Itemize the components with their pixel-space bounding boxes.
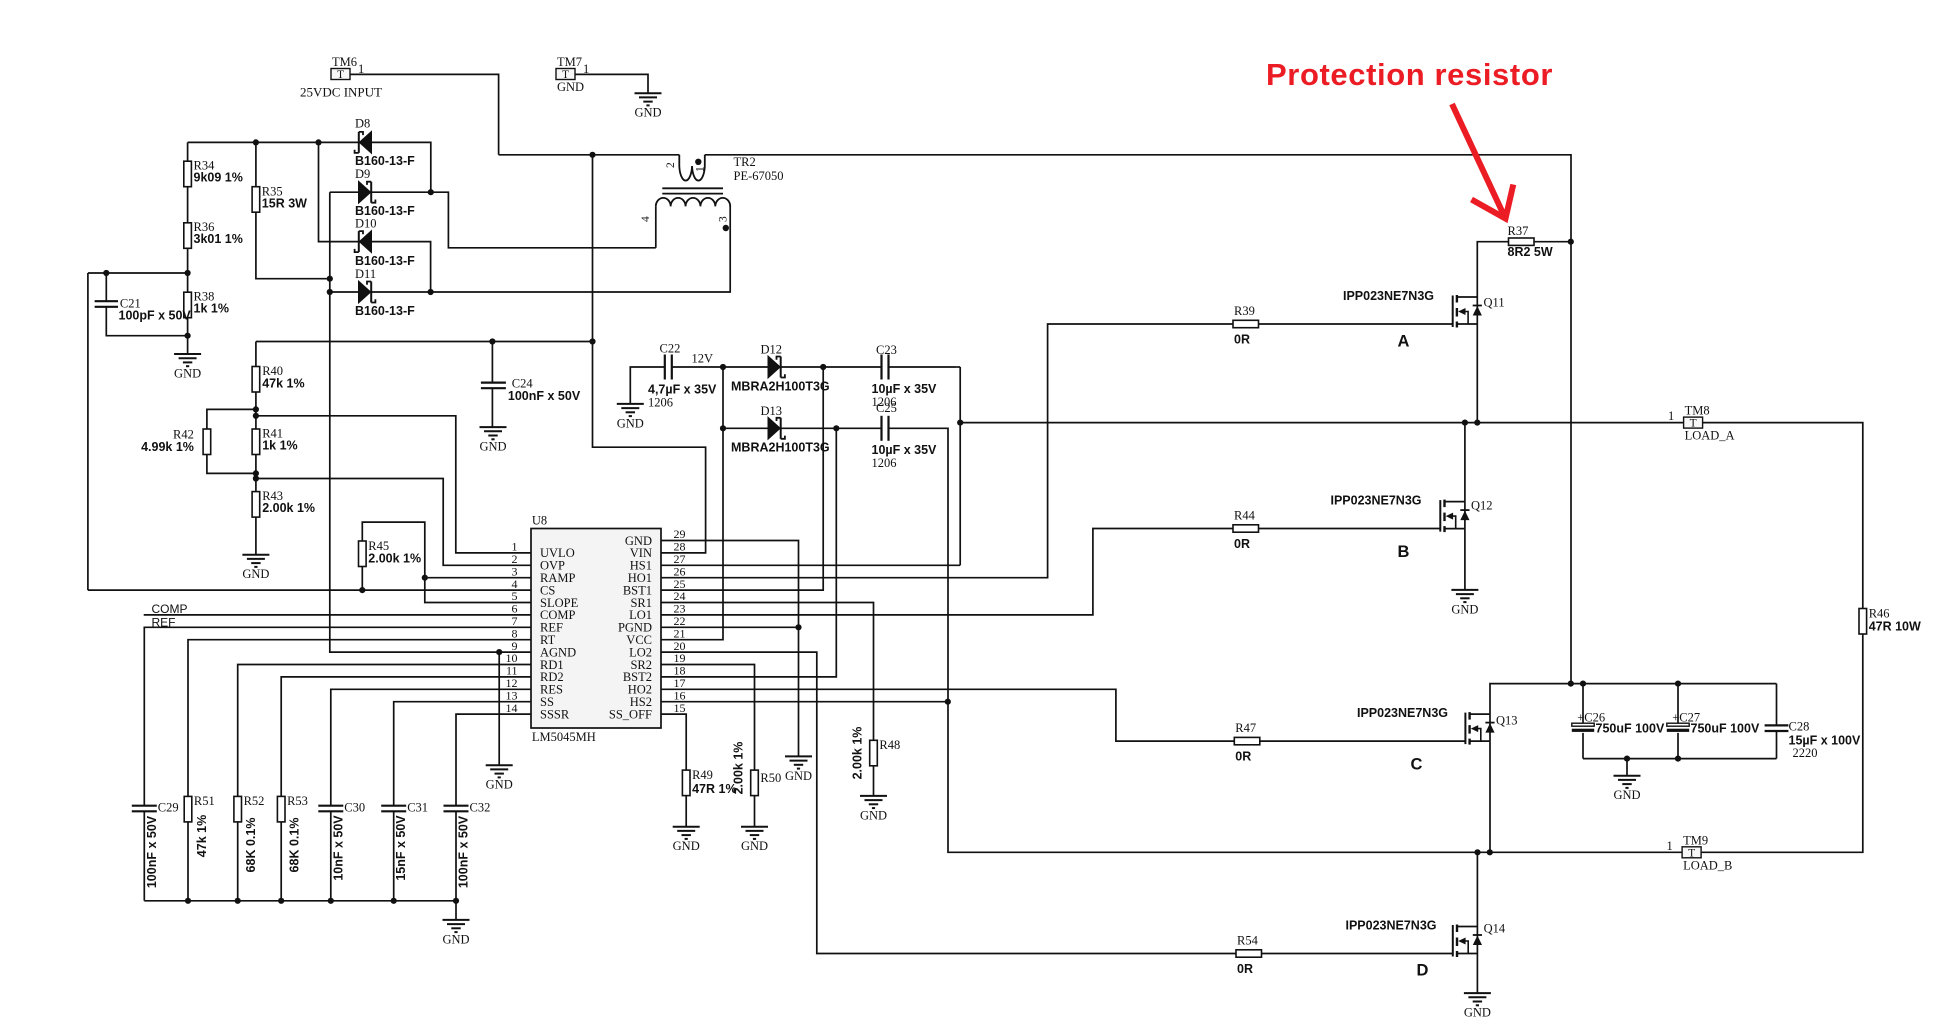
wire	[456, 714, 531, 805]
wire	[1677, 684, 1679, 724]
diode D10	[355, 231, 372, 253]
transistor Q13	[1357, 706, 1518, 745]
wire	[781, 366, 882, 368]
svg-text:TM7: TM7	[557, 55, 582, 69]
ground	[442, 920, 469, 947]
resistor R47	[1234, 737, 1260, 744]
svg-text:C: C	[1411, 756, 1423, 774]
wire	[238, 665, 531, 797]
svg-text:C29: C29	[158, 801, 179, 815]
svg-text:Protection resistor: Protection resistor	[1266, 57, 1553, 92]
wire	[361, 567, 363, 591]
wire	[372, 142, 431, 192]
ground	[174, 354, 201, 381]
svg-text:15R 3W: 15R 3W	[262, 196, 307, 210]
svg-text:GND: GND	[785, 769, 812, 783]
wire	[630, 367, 665, 404]
svg-text:Q12: Q12	[1471, 499, 1493, 513]
wire	[394, 702, 531, 806]
junction	[1462, 420, 1468, 426]
resistor R43	[252, 492, 260, 517]
capacitor C25	[882, 416, 889, 441]
svg-text:R53: R53	[287, 794, 308, 808]
wire	[1259, 323, 1453, 325]
wire	[331, 689, 531, 805]
test point TM7	[556, 55, 582, 81]
junction	[1580, 681, 1586, 687]
diode D8	[355, 131, 372, 153]
junction	[315, 139, 321, 145]
capacitor C24	[481, 383, 506, 389]
op-amp U8 LM5045MH controller	[506, 514, 686, 745]
diode D12	[768, 356, 785, 378]
svg-text:4.99k 1%: 4.99k 1%	[141, 440, 194, 454]
junction	[422, 575, 428, 581]
junction	[328, 898, 334, 904]
wire	[237, 822, 239, 901]
svg-text:3k01 1%: 3k01 1%	[194, 232, 243, 246]
svg-text:R47: R47	[1235, 721, 1256, 735]
wire	[661, 652, 1236, 953]
wire	[1476, 852, 1478, 926]
capacitor C32	[444, 806, 469, 812]
svg-text:B160-13-F: B160-13-F	[355, 154, 415, 168]
resistor R50	[751, 770, 759, 796]
svg-text:A: A	[1398, 333, 1410, 351]
wire	[1464, 529, 1466, 590]
test point TM8	[1684, 404, 1735, 443]
wire	[661, 367, 823, 590]
transistor Q14	[1345, 919, 1505, 958]
wire	[661, 324, 1233, 578]
svg-text:C23: C23	[876, 343, 897, 357]
wire	[1582, 733, 1584, 759]
svg-text:GND: GND	[1613, 788, 1640, 802]
wire	[88, 589, 531, 591]
svg-text:R37: R37	[1508, 224, 1529, 238]
svg-text:1k 1%: 1k 1%	[194, 301, 229, 315]
svg-text:T: T	[337, 69, 344, 81]
wire	[781, 427, 882, 429]
junction	[1487, 849, 1493, 855]
capacitor C23	[882, 355, 889, 380]
wire	[1776, 731, 1778, 759]
svg-text:2: 2	[665, 162, 677, 168]
wire	[1476, 954, 1478, 994]
junction	[1474, 420, 1480, 426]
svg-text:PE-67050: PE-67050	[734, 169, 784, 183]
wire	[1259, 528, 1441, 530]
resistor R53	[277, 796, 285, 822]
svg-text:2.00k 1%: 2.00k 1%	[262, 501, 315, 515]
capacitor C30	[318, 806, 343, 812]
svg-text:Q14: Q14	[1484, 922, 1506, 936]
wire	[661, 714, 686, 770]
wire	[1776, 684, 1778, 726]
wire	[425, 577, 531, 579]
svg-text:9k09 1%: 9k09 1%	[194, 170, 243, 184]
wire	[281, 677, 531, 797]
ground	[1451, 590, 1478, 617]
svg-text:GND: GND	[486, 778, 513, 792]
diode D13	[768, 417, 785, 439]
wire	[1476, 324, 1478, 423]
resistor R35	[252, 187, 260, 213]
svg-text:GND: GND	[673, 839, 700, 853]
ground	[1613, 776, 1640, 803]
wire	[187, 248, 189, 292]
wire	[1464, 423, 1466, 502]
wire	[330, 291, 359, 293]
junction	[253, 413, 259, 419]
wire	[957, 366, 961, 368]
ground	[617, 404, 644, 431]
junction	[235, 898, 241, 904]
wire	[187, 318, 189, 354]
junction	[253, 406, 259, 412]
wire	[1477, 242, 1508, 297]
svg-text:D9: D9	[355, 167, 370, 181]
wire	[330, 191, 359, 193]
resistor R41	[252, 429, 260, 455]
wire	[661, 665, 755, 771]
svg-text:47R 10W: 47R 10W	[1869, 619, 1921, 633]
svg-text:D12: D12	[761, 343, 783, 357]
wire	[1490, 684, 1777, 715]
svg-text:IPP023NE7N3G: IPP023NE7N3G	[1330, 494, 1421, 508]
svg-text:D: D	[1417, 962, 1429, 980]
junction	[428, 289, 434, 295]
wire	[661, 603, 874, 741]
ground	[860, 796, 887, 823]
svg-text:TM8: TM8	[1685, 404, 1710, 418]
svg-text:C28: C28	[1789, 720, 1810, 734]
wire	[255, 455, 257, 492]
wire	[144, 901, 456, 920]
wire	[1260, 740, 1466, 742]
svg-text:TR2: TR2	[734, 155, 756, 169]
junction	[428, 189, 434, 195]
wire	[1262, 953, 1453, 955]
svg-text:GND: GND	[1464, 1006, 1491, 1020]
svg-text:25VDC INPUT: 25VDC INPUT	[300, 85, 382, 100]
wire	[256, 212, 330, 279]
svg-text:R48: R48	[879, 738, 900, 752]
svg-text:U8: U8	[532, 514, 547, 528]
svg-text:47k 1%: 47k 1%	[262, 377, 304, 391]
svg-text:2.00k 1%: 2.00k 1%	[368, 551, 421, 565]
junction	[1675, 681, 1681, 687]
wire	[187, 142, 189, 161]
resistor R40	[252, 367, 260, 393]
junction	[833, 425, 839, 431]
svg-text:0R: 0R	[1237, 962, 1253, 976]
svg-text:GND: GND	[634, 106, 661, 120]
junction	[589, 152, 595, 158]
svg-text:100nF x 50V: 100nF x 50V	[457, 815, 471, 888]
svg-text:15nF x 50V: 15nF x 50V	[394, 815, 408, 881]
junction	[359, 587, 365, 593]
svg-text:R52: R52	[244, 794, 265, 808]
wire	[661, 701, 948, 703]
svg-text:R46: R46	[1869, 606, 1890, 620]
wire	[661, 626, 799, 628]
wire	[255, 142, 257, 186]
capacitor C29	[132, 806, 157, 812]
wire	[1583, 758, 1777, 760]
svg-text:TM9: TM9	[1683, 833, 1708, 847]
svg-text:LM5045MH: LM5045MH	[532, 730, 596, 744]
capacitor C31	[381, 806, 406, 812]
wire	[1582, 684, 1584, 724]
wire	[499, 154, 680, 156]
wire	[889, 428, 1683, 852]
test point TM9	[1682, 833, 1732, 872]
junction	[1568, 681, 1574, 687]
wire	[491, 342, 493, 383]
svg-text:10nF x 50V: 10nF x 50V	[331, 815, 345, 881]
svg-text:750uF 100V: 750uF 100V	[1691, 721, 1760, 735]
junction	[253, 475, 259, 481]
wire	[350, 74, 499, 154]
ground	[479, 427, 506, 454]
resistor R49	[682, 770, 690, 796]
wire	[661, 529, 1233, 615]
capacitor C22	[665, 355, 672, 380]
resistor R37	[1509, 238, 1535, 245]
wire	[256, 479, 531, 566]
transistor Q11	[1343, 289, 1505, 328]
wire	[143, 811, 145, 901]
wire	[106, 307, 187, 336]
transistor Q12	[1330, 494, 1492, 532]
junction	[589, 338, 595, 344]
wire	[330, 192, 531, 652]
wire	[256, 341, 593, 343]
svg-text:R49: R49	[692, 768, 713, 782]
resistor R42	[203, 429, 211, 455]
junction	[1675, 756, 1681, 762]
svg-text:COMP: COMP	[152, 602, 188, 616]
svg-text:3: 3	[718, 216, 730, 222]
wire	[255, 517, 257, 555]
wire	[280, 822, 282, 901]
svg-text:IPP023NE7N3G: IPP023NE7N3G	[1345, 919, 1436, 933]
wire	[705, 155, 1571, 684]
wire	[362, 522, 531, 602]
svg-text:TM6: TM6	[332, 55, 357, 69]
wire	[188, 640, 531, 797]
svg-text:D10: D10	[355, 217, 377, 231]
junction	[327, 276, 333, 282]
svg-text:1: 1	[695, 166, 707, 172]
wire	[371, 206, 730, 292]
wire	[371, 192, 656, 248]
junction	[820, 364, 826, 370]
wire	[188, 141, 360, 143]
wire	[1534, 241, 1571, 243]
junction	[1568, 239, 1574, 245]
ground	[242, 555, 269, 582]
svg-text:LOAD_B: LOAD_B	[1683, 858, 1732, 872]
svg-text:R44: R44	[1234, 509, 1256, 523]
svg-text:2220: 2220	[1793, 746, 1818, 760]
wire	[575, 74, 648, 93]
svg-text:10µF x 35V: 10µF x 35V	[872, 443, 938, 457]
svg-text:GND: GND	[617, 416, 644, 430]
wire	[372, 242, 431, 292]
diode D11	[359, 281, 376, 303]
svg-text:0R: 0R	[1234, 537, 1250, 551]
transformer TR2	[640, 155, 784, 248]
resistor R54	[1236, 950, 1262, 957]
resistor R38	[184, 292, 192, 318]
ground	[785, 756, 812, 783]
wire	[959, 367, 961, 565]
capacitor C28	[1765, 725, 1789, 731]
svg-text:Q11: Q11	[1484, 296, 1505, 310]
svg-text:R50: R50	[760, 771, 781, 785]
svg-text:B: B	[1398, 543, 1410, 561]
wire	[105, 273, 107, 301]
ground	[741, 827, 768, 854]
wire	[1626, 759, 1628, 776]
wire	[1702, 634, 1863, 852]
svg-text:47R 1%: 47R 1%	[692, 782, 736, 796]
wire	[256, 416, 531, 553]
capacitor C26	[1572, 723, 1594, 732]
junction	[185, 333, 191, 339]
svg-text:D8: D8	[355, 116, 370, 130]
svg-text:15: 15	[674, 701, 686, 715]
svg-text:MBRA2H100T3G: MBRA2H100T3G	[731, 379, 830, 393]
wire	[87, 273, 89, 590]
capacitor C27	[1667, 723, 1689, 732]
junction	[795, 624, 801, 630]
junction	[185, 898, 191, 904]
wire	[661, 367, 723, 640]
wire	[491, 388, 493, 427]
svg-text:IPP023NE7N3G: IPP023NE7N3G	[1343, 289, 1434, 303]
svg-text:GND: GND	[557, 80, 584, 94]
wire	[319, 142, 360, 241]
svg-text:8R2 5W: 8R2 5W	[1508, 245, 1553, 259]
svg-text:SS_OFF: SS_OFF	[609, 707, 652, 721]
svg-text:C25: C25	[876, 401, 897, 415]
svg-text:47k 1%: 47k 1%	[195, 815, 209, 857]
wire	[144, 614, 531, 616]
svg-text:Q13: Q13	[1496, 714, 1518, 728]
wire	[498, 652, 500, 765]
test point TM6	[331, 55, 357, 81]
svg-text:14: 14	[506, 701, 518, 715]
svg-text:0R: 0R	[1234, 333, 1250, 347]
resistor R34	[184, 161, 192, 187]
wire	[723, 427, 768, 429]
svg-text:C31: C31	[407, 801, 428, 815]
wire	[661, 428, 836, 677]
svg-text:100nF x 50V: 100nF x 50V	[145, 815, 159, 888]
junction	[720, 425, 726, 431]
wire	[1703, 423, 1863, 609]
svg-text:GND: GND	[741, 839, 768, 853]
junction	[103, 270, 109, 276]
wire	[207, 455, 256, 474]
svg-text:MBRA2H100T3G: MBRA2H100T3G	[731, 441, 830, 455]
svg-text:R54: R54	[1237, 934, 1259, 948]
junction	[453, 898, 459, 904]
wire	[873, 766, 875, 796]
junction	[253, 470, 259, 476]
resistor R44	[1233, 525, 1259, 532]
svg-text:C32: C32	[470, 801, 491, 815]
wire	[88, 272, 188, 274]
wire	[672, 366, 768, 368]
junction	[1474, 849, 1480, 855]
svg-text:0R: 0R	[1235, 750, 1251, 764]
svg-text:GND: GND	[1451, 602, 1478, 616]
wire	[1489, 741, 1491, 852]
diode D9	[359, 181, 376, 203]
wire	[661, 541, 799, 757]
svg-text:D13: D13	[761, 404, 783, 418]
ground	[486, 765, 513, 792]
svg-text:1206: 1206	[872, 456, 897, 470]
wire	[889, 366, 957, 368]
svg-text:GND: GND	[174, 367, 201, 381]
junction	[391, 898, 397, 904]
svg-text:GND: GND	[860, 808, 887, 822]
svg-text:LOAD_A: LOAD_A	[1685, 429, 1735, 443]
resistor R51	[184, 796, 192, 822]
svg-text:GND: GND	[479, 440, 506, 454]
junction	[489, 338, 495, 344]
resistor R52	[234, 796, 242, 822]
svg-text:1206: 1206	[648, 395, 673, 409]
junction	[957, 420, 963, 426]
svg-text:SSSR: SSSR	[540, 707, 570, 721]
svg-text:750uF 100V: 750uF 100V	[1596, 721, 1665, 735]
svg-text:R51: R51	[194, 794, 215, 808]
svg-text:GND: GND	[242, 567, 269, 581]
junction	[496, 649, 502, 655]
ground	[673, 827, 700, 854]
annotation Protection resistor	[1266, 57, 1553, 219]
svg-text:IPP023NE7N3G: IPP023NE7N3G	[1357, 706, 1448, 720]
wire	[255, 392, 257, 429]
wire	[593, 155, 706, 553]
svg-text:1: 1	[1667, 839, 1673, 853]
svg-text:B160-13-F: B160-13-F	[355, 304, 415, 318]
junction	[720, 364, 726, 370]
ground	[634, 93, 661, 120]
svg-text:C30: C30	[344, 801, 365, 815]
svg-text:D11: D11	[355, 267, 376, 281]
svg-text:68K 0.1%: 68K 0.1%	[288, 818, 302, 873]
ground	[1464, 993, 1491, 1020]
wire	[455, 811, 457, 901]
wire	[187, 187, 189, 223]
resistor R39	[1233, 320, 1259, 327]
wire	[330, 811, 332, 901]
junction	[253, 139, 259, 145]
svg-text:68K 0.1%: 68K 0.1%	[244, 818, 258, 873]
wire	[960, 422, 1683, 424]
svg-text:B160-13-F: B160-13-F	[355, 254, 415, 268]
resistor R48	[870, 740, 878, 766]
svg-text:GND: GND	[442, 932, 469, 946]
svg-text:C22: C22	[660, 342, 681, 356]
